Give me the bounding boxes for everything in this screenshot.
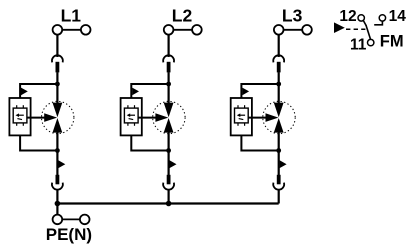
svg-text:L1: L1 bbox=[61, 5, 82, 25]
svg-text:L2: L2 bbox=[172, 5, 193, 25]
svg-text:L3: L3 bbox=[282, 5, 303, 25]
svg-text:14: 14 bbox=[389, 8, 407, 25]
svg-text:PE(N): PE(N) bbox=[46, 225, 92, 244]
svg-text:11: 11 bbox=[350, 37, 367, 54]
svg-text:12: 12 bbox=[339, 8, 356, 25]
svg-text:FM: FM bbox=[380, 32, 404, 50]
